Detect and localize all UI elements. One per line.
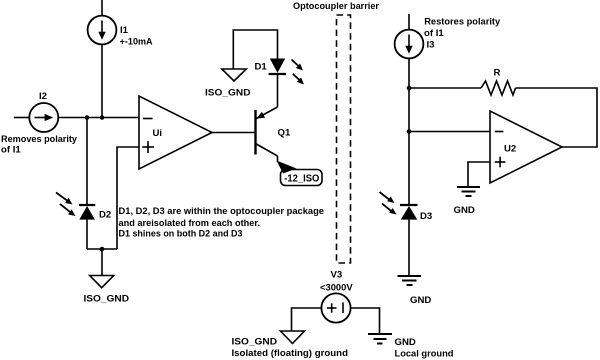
- svg-text:V3: V3: [331, 270, 343, 281]
- svg-text:ISO_GND: ISO_GND: [232, 337, 278, 348]
- svg-text:R: R: [494, 68, 501, 79]
- svg-text:of I1: of I1: [1, 145, 21, 156]
- D1 light arrow 1: [292, 60, 304, 71]
- wire U2 plus input to ground: [468, 162, 490, 187]
- svg-text:D1, D2, D3 are within the opto: D1, D2, D3 are within the optocoupler pa…: [119, 206, 325, 217]
- node junction dot: [85, 115, 90, 120]
- svg-text:Optocoupler barrier: Optocoupler barrier: [293, 1, 379, 12]
- ground ISO_GND top: [222, 69, 246, 81]
- op-amp Ui: [139, 96, 212, 169]
- photodiode D2: [79, 205, 95, 220]
- wire U2 minus input: [409, 131, 490, 133]
- node junction dot: [100, 247, 105, 252]
- ground ISO_GND left: [90, 276, 114, 288]
- svg-text:I2: I2: [39, 91, 47, 102]
- svg-text:and areisolated from each othe: and areisolated from each other.: [119, 218, 261, 229]
- svg-text:I1: I1: [120, 25, 129, 36]
- svg-text:Restores polarity: Restores polarity: [424, 17, 501, 28]
- D2 light arrow 2: [60, 204, 76, 216]
- net flag pointer: [277, 161, 297, 174]
- ground ISO_GND bottom: [281, 331, 305, 344]
- svg-text:GND: GND: [454, 205, 475, 216]
- transistor Q1: [256, 107, 278, 156]
- D1 light arrow 2: [293, 74, 304, 85]
- wire I3 top: [408, 14, 410, 30]
- current source I1: [88, 16, 117, 45]
- node junction dot: [407, 86, 412, 91]
- wire I1 to node: [101, 44, 103, 117]
- D3 light arrow 1: [380, 192, 395, 203]
- svg-text:Isolated (floating) ground: Isolated (floating) ground: [232, 348, 349, 359]
- wire V3 right to GND: [351, 308, 380, 334]
- photodiode D3: [400, 205, 418, 220]
- current source I3: [395, 30, 424, 59]
- wire feedback right: [516, 88, 598, 147]
- wire Ui plus input: [117, 147, 139, 249]
- svg-text:Removes polarity: Removes polarity: [1, 134, 78, 145]
- wire I2 left: [14, 117, 29, 119]
- svg-text:ISO_GND: ISO_GND: [205, 88, 251, 99]
- wire I3 down to D3: [408, 58, 410, 205]
- ground GND bottom: [368, 334, 392, 344]
- svg-text:Local ground: Local ground: [395, 348, 454, 359]
- optocoupler barrier dashed: [337, 15, 351, 263]
- wire Ui output to Q1 base: [212, 132, 256, 134]
- svg-text:Q1: Q1: [278, 128, 291, 139]
- led D1: [269, 59, 286, 75]
- svg-text:I3: I3: [427, 40, 435, 51]
- svg-text:D3: D3: [420, 211, 432, 222]
- wire I2 to op-amp Ui minus: [58, 117, 139, 119]
- svg-text:U2: U2: [504, 144, 516, 155]
- wire I1 top: [101, 0, 103, 16]
- svg-text:<3000V: <3000V: [320, 283, 353, 294]
- svg-text:D1 shines on both D2 and D3: D1 shines on both D2 and D3: [119, 229, 243, 240]
- svg-text:Ui: Ui: [153, 128, 163, 139]
- net label -12_ISO: [281, 170, 323, 186]
- wire feedback left: [409, 87, 481, 89]
- svg-text:GND: GND: [395, 337, 416, 348]
- wire Q1 collector to D1: [277, 74, 279, 107]
- wire node to D2: [86, 118, 88, 206]
- ground GND u2: [457, 187, 480, 196]
- wire ISO_GND bottom horizontal: [87, 248, 117, 250]
- svg-text:+-10mA: +-10mA: [120, 37, 153, 48]
- ground GND d3: [398, 276, 422, 285]
- wire D3 to GND: [408, 220, 410, 276]
- node junction dot: [100, 115, 105, 120]
- svg-text:ISO_GND: ISO_GND: [84, 294, 130, 305]
- wire to ISO_GND: [101, 249, 103, 276]
- resistor R: [481, 81, 516, 95]
- svg-text:-12_ISO: -12_ISO: [284, 174, 319, 185]
- svg-text:GND: GND: [410, 295, 431, 306]
- wire D2 bottom: [86, 220, 88, 249]
- node junction dot: [407, 129, 412, 134]
- wire D1 anode up and left: [233, 30, 277, 69]
- D3 light arrow 2: [382, 204, 397, 215]
- svg-text:D2: D2: [99, 210, 111, 221]
- wire V3 left to ISO_GND: [292, 308, 322, 331]
- wire Q1 emitter to net flag: [277, 156, 279, 162]
- current source I2: [29, 103, 58, 132]
- svg-text:D1: D1: [255, 62, 268, 73]
- D2 light arrow 1: [56, 193, 73, 205]
- op-amp U2: [490, 111, 562, 183]
- voltage source V3: [321, 293, 350, 322]
- note text: [119, 206, 325, 240]
- svg-text:of I1: of I1: [424, 28, 444, 39]
